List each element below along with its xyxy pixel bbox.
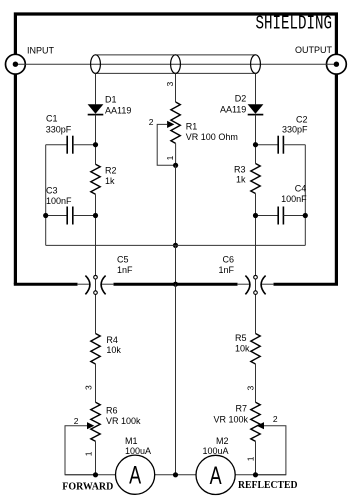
wire coax to D1 anode <box>95 73 97 104</box>
R7 wiper wire pin2 <box>256 426 286 475</box>
svg-text:100uA: 100uA <box>125 446 151 456</box>
svg-text:VR 100 Ohm: VR 100 Ohm <box>186 132 238 142</box>
capacitor C1 plates <box>66 136 68 154</box>
resistor R2 1k zigzag <box>91 164 100 194</box>
wire R3 bottom to C4 node <box>255 194 257 216</box>
capacitor C4 100nF left wire <box>256 215 279 217</box>
svg-text:10k: 10k <box>235 343 250 353</box>
svg-text:R1: R1 <box>186 121 198 131</box>
feedthrough capacitor C5 1nF <box>77 275 114 294</box>
wire coax to R1 pin3 <box>175 73 177 102</box>
svg-text:C4: C4 <box>295 184 307 194</box>
shielding enclosure box <box>15 14 336 284</box>
wire shield wall down to meter bus <box>175 284 177 475</box>
wire R7 bottom pin1 to meter bus <box>255 441 257 475</box>
svg-text:1: 1 <box>245 456 255 461</box>
svg-text:R2: R2 <box>105 166 117 176</box>
coax ellipse right <box>251 55 261 74</box>
wire meter bus horizontal <box>65 474 286 476</box>
capacitor C1 330pF left wire <box>46 144 67 146</box>
wire C3 node down through ground bus to feedthrough C5 <box>95 216 97 334</box>
R6 wiper wire pin2 <box>65 426 96 475</box>
coax tube top line <box>96 54 256 56</box>
node R6 pin1 meter bus junction <box>93 472 98 477</box>
coax ellipse left <box>91 55 101 74</box>
svg-text:A: A <box>210 461 222 490</box>
node center meter bus junction <box>173 472 178 477</box>
meter M2 100uA body <box>196 455 235 494</box>
capacitor C2 330pF left wire <box>256 144 279 146</box>
svg-text:VR 100k: VR 100k <box>106 416 141 426</box>
connector J2 OUTPUT center pin <box>334 61 339 66</box>
wire D2 cathode to node / R3 top <box>255 115 257 164</box>
coax tube bottom line <box>96 72 256 74</box>
svg-text:100uA: 100uA <box>202 446 228 456</box>
wire D1 cathode to node / R2 top <box>95 115 97 165</box>
svg-text:OUTPUT: OUTPUT <box>295 45 333 55</box>
capacitor C3 right wire <box>73 215 96 217</box>
svg-text:C6: C6 <box>222 255 234 265</box>
capacitor C4 plates <box>277 207 279 225</box>
svg-text:R6: R6 <box>106 406 118 416</box>
diode D2 cathode bar <box>248 114 264 116</box>
node C3 left junction <box>43 213 48 218</box>
wire R1 bottom pin1 <box>175 143 177 165</box>
diode D2 AA119 triangle <box>248 104 264 114</box>
wire R2 bottom to C3 node <box>95 194 97 215</box>
svg-text:1k: 1k <box>236 175 246 185</box>
coax ellipse middle <box>171 55 181 74</box>
capacitor C2 right wire <box>283 144 305 146</box>
node C4 right junction <box>303 213 308 218</box>
svg-text:REFLECTED: REFLECTED <box>238 480 298 491</box>
wire ground bus horizontal <box>46 244 306 246</box>
svg-text:C3: C3 <box>46 186 58 196</box>
wire left rail C1 to C3 to bus <box>45 145 47 246</box>
connector J1 INPUT center pin <box>13 61 18 66</box>
svg-text:1: 1 <box>83 451 93 456</box>
svg-text:330pF: 330pF <box>46 125 72 135</box>
node R7 pin1 meter bus junction <box>253 472 258 477</box>
svg-text:C2: C2 <box>296 115 308 125</box>
node R3/C4 junction <box>253 213 258 218</box>
svg-text:R3: R3 <box>234 165 246 175</box>
node R2/C3 junction <box>93 213 98 218</box>
wire right rail C2 to C4 to bus <box>304 145 306 246</box>
R1 wiper arrow <box>167 121 174 128</box>
svg-text:1k: 1k <box>105 176 115 186</box>
wire R6 bottom pin1 to meter bus <box>95 441 97 475</box>
svg-text:1nF: 1nF <box>117 265 133 275</box>
svg-text:VR 100k: VR 100k <box>213 415 248 425</box>
svg-text:100nF: 100nF <box>46 196 72 206</box>
connector J2 OUTPUT ring <box>327 54 347 74</box>
svg-text:D2: D2 <box>235 94 247 104</box>
wire C4 node down through ground bus to feedthrough C6 <box>255 216 257 334</box>
shield bottom wall segment middle <box>114 283 238 286</box>
wire R5 to R7 pin3 <box>255 364 257 402</box>
svg-text:AA119: AA119 <box>105 105 131 115</box>
wire R4 to R6 pin3 <box>95 364 97 402</box>
node R1 pin1 junction <box>173 163 178 168</box>
capacitor C3 100nF left wire <box>46 215 67 217</box>
feedthrough capacitor C6 1nF <box>237 275 274 294</box>
wire R1 pin1 down to ground bus <box>175 165 177 245</box>
wire center conductor INPUT to OUTPUT <box>15 63 336 65</box>
node D2/R3/C2 junction <box>253 142 258 147</box>
svg-text:C5: C5 <box>117 255 129 265</box>
svg-text:AA119: AA119 <box>220 104 246 114</box>
svg-text:330pF: 330pF <box>282 125 308 135</box>
shield bottom wall segment right <box>274 283 339 286</box>
potentiometer R6 VR 100k zigzag <box>91 402 100 441</box>
svg-text:A: A <box>129 461 141 490</box>
node shield wall junction <box>173 282 178 287</box>
R1 wiper wire pin2 <box>157 124 175 165</box>
meter M1 100uA body <box>116 455 155 494</box>
node ground bus center junction <box>173 243 178 248</box>
svg-text:3: 3 <box>83 385 93 390</box>
R6 wiper arrow <box>87 422 94 429</box>
node D1/R2/C1 junction <box>93 142 98 147</box>
svg-text:2: 2 <box>273 414 278 424</box>
diode D1 AA119 triangle <box>88 104 104 114</box>
svg-text:M2: M2 <box>216 436 229 446</box>
resistor R3 1k zigzag <box>251 164 260 194</box>
svg-text:SHIELDING: SHIELDING <box>256 12 333 34</box>
capacitor C4 right wire <box>283 215 305 217</box>
potentiometer R1 VR 100 Ohm zigzag <box>171 102 180 143</box>
svg-text:3: 3 <box>245 386 255 391</box>
capacitor C3 plates <box>66 207 68 225</box>
svg-text:R5: R5 <box>235 333 247 343</box>
svg-text:2: 2 <box>74 416 79 426</box>
connector J1 INPUT ring <box>6 54 26 74</box>
svg-text:R4: R4 <box>106 335 118 345</box>
potentiometer R7 VR 100k zigzag <box>251 402 260 441</box>
svg-text:10k: 10k <box>106 345 121 355</box>
svg-text:100nF: 100nF <box>281 194 307 204</box>
svg-text:3: 3 <box>165 82 175 87</box>
svg-text:R7: R7 <box>235 404 247 414</box>
capacitor C2 plates <box>277 136 279 154</box>
svg-text:FORWARD: FORWARD <box>62 482 113 493</box>
svg-text:D1: D1 <box>105 95 117 105</box>
wire bus to shield wall <box>175 245 177 284</box>
wire coax to D2 anode <box>255 73 257 104</box>
diode D1 cathode bar <box>88 114 104 116</box>
svg-text:2: 2 <box>149 117 154 127</box>
shield bottom wall segment left <box>14 283 78 286</box>
R7 wiper arrow <box>257 422 264 429</box>
svg-text:C1: C1 <box>46 114 58 124</box>
svg-text:INPUT: INPUT <box>27 46 55 56</box>
svg-text:1nF: 1nF <box>218 265 234 275</box>
svg-text:1: 1 <box>165 155 175 160</box>
resistor R4 10k zigzag <box>91 334 100 365</box>
resistor R5 10k zigzag <box>251 334 260 365</box>
capacitor C1 right wire <box>73 144 96 146</box>
svg-text:M1: M1 <box>125 436 138 446</box>
